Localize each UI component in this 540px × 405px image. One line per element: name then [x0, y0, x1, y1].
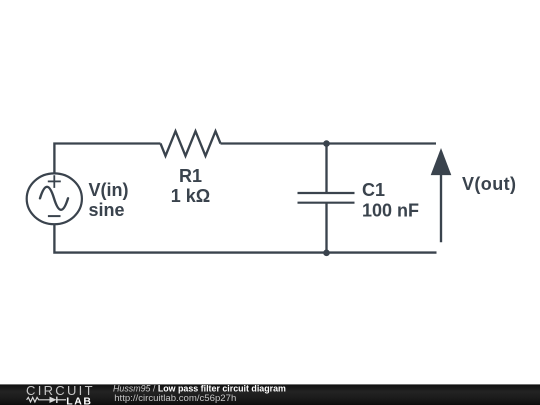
wire top: source to resistor	[54, 144, 160, 173]
footer bar	[0, 384, 540, 405]
voltage source plus sign	[48, 175, 61, 188]
svg-text:V(in): V(in)	[89, 180, 129, 200]
svg-text:100 nF: 100 nF	[362, 200, 419, 220]
node junction top	[323, 140, 330, 147]
wire capacitor bottom lead	[325, 203, 327, 253]
resistor R1	[161, 131, 221, 156]
node junction bottom	[323, 250, 330, 257]
svg-text:http://circuitlab.com/c56p27h: http://circuitlab.com/c56p27h	[114, 393, 236, 404]
voltage source minus sign	[48, 215, 61, 217]
voltage source V1 circle	[27, 173, 82, 224]
voltage source sine wave	[40, 187, 68, 210]
svg-text:sine: sine	[89, 200, 125, 220]
wire top: resistor to output	[221, 142, 437, 144]
svg-text:C1: C1	[362, 180, 385, 200]
svg-text:V(out): V(out)	[462, 174, 516, 194]
V(out) arrow	[431, 148, 452, 242]
wire capacitor top lead	[325, 144, 327, 194]
capacitor C1 plates	[298, 193, 355, 203]
logo resistor-diode glyph	[27, 397, 66, 403]
svg-text:1 kΩ: 1 kΩ	[171, 186, 210, 206]
svg-text:R1: R1	[179, 166, 202, 186]
footer background bar	[0, 384, 540, 405]
wire bottom	[54, 225, 436, 253]
svg-text:LAB: LAB	[66, 396, 92, 405]
